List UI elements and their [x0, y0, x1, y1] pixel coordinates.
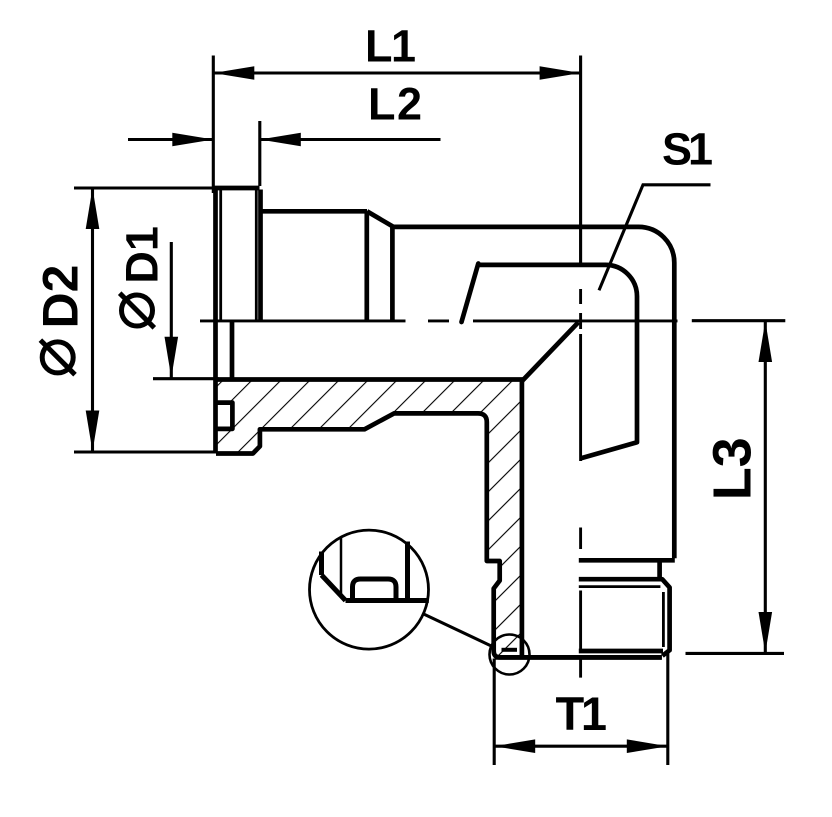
detail bore wall	[319, 552, 324, 576]
L1 right extension line	[579, 56, 582, 266]
thin drawing lines	[221, 190, 664, 647]
thread root top line	[579, 585, 661, 588]
D2 top extension line	[74, 186, 216, 189]
dimension L2 right line	[260, 138, 441, 141]
detail thin thread line	[340, 537, 343, 596]
L3 bottom extension line	[686, 652, 785, 655]
T1 left extension line	[493, 659, 496, 766]
thick body outlines of elbow fitting	[214, 188, 675, 657]
small detail target circle	[490, 635, 530, 675]
body left face	[390, 227, 395, 321]
detail leader line	[423, 614, 491, 646]
L3 arrow up	[759, 321, 773, 362]
D1 extension line	[153, 377, 219, 380]
T1 right extension line	[666, 653, 669, 765]
bore cone transition	[522, 322, 578, 381]
L2 arrow pointing right	[172, 133, 213, 147]
detail right wall	[405, 542, 410, 601]
svg-text:S1: S1	[662, 124, 713, 175]
hex nut top flat	[261, 209, 368, 214]
detail sealing tab	[353, 579, 397, 601]
detail chamfer	[322, 575, 346, 601]
flange top face	[214, 186, 260, 191]
diameter symbol for D1	[120, 293, 155, 328]
L2 right extension line	[258, 121, 261, 186]
S1 leader line	[599, 185, 711, 290]
stud shoulder face right	[579, 558, 675, 563]
vertical bore wall	[520, 380, 525, 656]
inner hex flat contour with inner corner radius	[479, 265, 637, 459]
dimension T1 line	[494, 745, 668, 748]
stud bottom face	[495, 655, 662, 660]
vertical centerline	[579, 289, 582, 678]
flange left edge	[213, 189, 218, 452]
L1 arrow left	[213, 66, 254, 80]
L1 left extension line	[212, 56, 215, 194]
dimension D1 line	[170, 242, 173, 378]
thread neck right edge	[657, 560, 662, 578]
svg-text:T1: T1	[556, 687, 608, 740]
thread root vertical line	[662, 592, 665, 647]
svg-text:L3: L3	[703, 437, 763, 500]
thread top line with chamfer	[579, 579, 670, 656]
svg-text:L1: L1	[365, 21, 416, 72]
detail circle magnified view	[310, 530, 530, 674]
arrowheads	[86, 66, 772, 753]
port face edge (section)	[230, 321, 235, 380]
dimension and extension lines	[74, 56, 785, 766]
dimension D2 line	[91, 188, 94, 452]
D2 bottom extension line	[74, 450, 217, 453]
nut-to-body chamfer	[367, 211, 394, 227]
dimension L1 line	[213, 71, 580, 74]
detail bottom face	[346, 598, 429, 603]
centerlines	[200, 289, 678, 678]
T1 arrow left	[494, 739, 535, 753]
svg-text:D2: D2	[33, 265, 89, 329]
D1 arrow down	[165, 337, 179, 378]
hex nut right face	[364, 211, 369, 321]
D2 arrow up	[86, 188, 100, 229]
diameter symbol for D2	[40, 340, 75, 375]
dimension L3 line	[764, 321, 767, 653]
flange sealing face line 2	[255, 190, 258, 321]
hex corner curve	[462, 264, 479, 323]
bottom profile from flange to vertical leg wall	[216, 413, 662, 657]
L3 top extension line	[692, 319, 786, 322]
hatched cross-section region of elbow body	[216, 380, 522, 658]
D2 arrow down	[86, 411, 100, 452]
horizontal centerline	[200, 319, 678, 322]
flange right face	[258, 190, 263, 321]
T1 arrow right	[627, 739, 668, 753]
detail circle	[310, 530, 429, 649]
L1 arrow right	[540, 66, 581, 80]
svg-text:L2: L2	[368, 79, 422, 130]
flange sealing face line 1	[219, 190, 222, 321]
L3 arrow down	[759, 612, 773, 653]
o-ring groove	[217, 403, 233, 429]
L2 arrow pointing left	[260, 133, 301, 147]
dimension L2 left line	[128, 138, 213, 141]
bore bottom line	[216, 377, 525, 382]
thread end line section side	[502, 648, 518, 652]
thread end line	[579, 649, 663, 654]
body top outline with outer corner radius	[394, 227, 675, 558]
svg-text:D1: D1	[117, 226, 168, 284]
